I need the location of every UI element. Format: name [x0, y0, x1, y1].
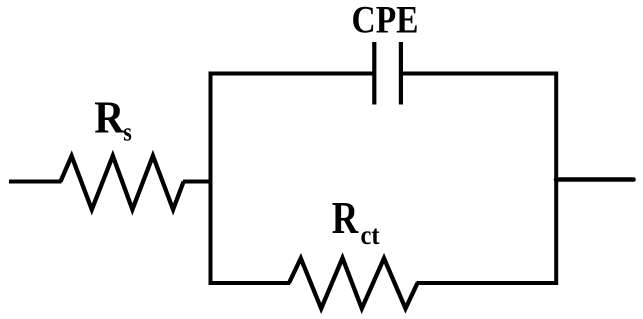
- svg-text:R: R: [94, 91, 125, 142]
- capacitor CPE left plate: [372, 42, 376, 105]
- wire: right terminal: [556, 177, 634, 182]
- wire: left terminal: [9, 180, 62, 184]
- wire: left branch vertical: [209, 72, 213, 286]
- svg-text:ct: ct: [361, 220, 380, 250]
- resistor R_s: [61, 156, 184, 210]
- svg-text:s: s: [123, 118, 132, 147]
- wire: R_s to left node: [183, 180, 213, 184]
- wire: top-left horizontal: [209, 72, 375, 76]
- wire: bottom-left horizontal: [209, 281, 291, 285]
- resistor R_ct: [289, 258, 418, 309]
- svg-text:R: R: [332, 192, 359, 243]
- wire: bottom-right horizontal: [417, 281, 559, 285]
- capacitor CPE right plate: [399, 42, 403, 105]
- wire: top-right horizontal: [401, 72, 558, 76]
- wire: right branch vertical: [554, 72, 558, 286]
- svg-text:CPE: CPE: [352, 0, 419, 42]
